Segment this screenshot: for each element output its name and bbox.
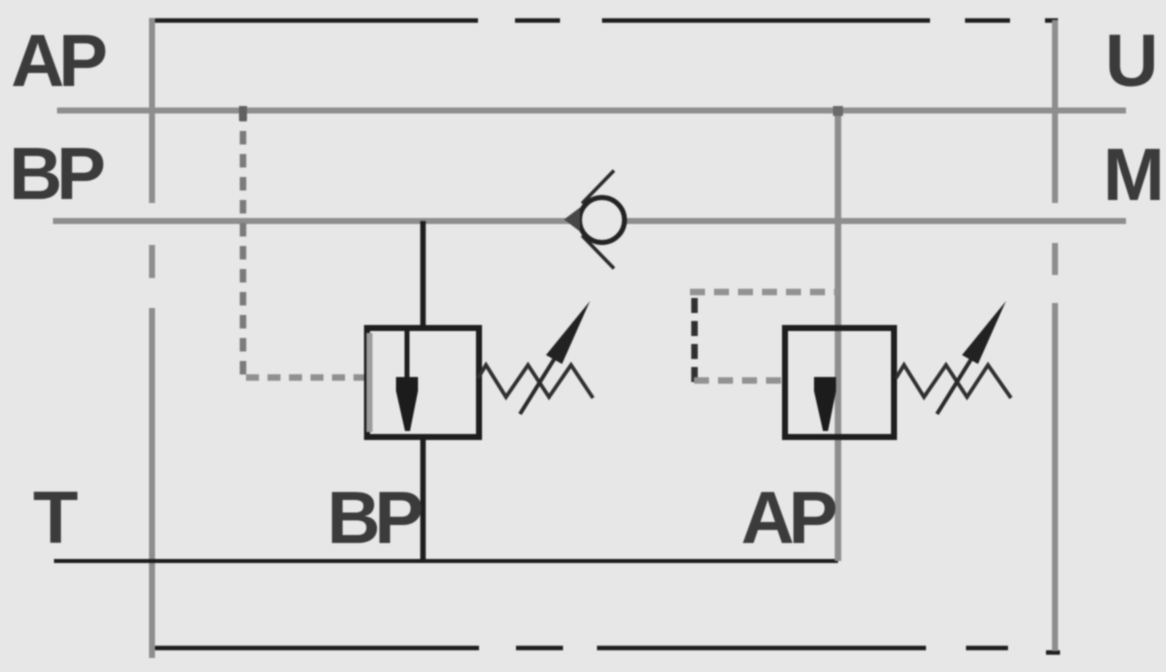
svg-text:T: T: [33, 476, 78, 559]
relief valve RV2 (right): body square: [785, 328, 894, 437]
relief valve RV1 (left): body square: [367, 328, 479, 437]
relief valve RV2: internal flow arrow (down): [814, 377, 836, 431]
enclosure border: bottom (black dashed): [154, 648, 1060, 653]
relief valve RV1: adjustment arrow: [520, 353, 558, 414]
svg-text:BP: BP: [9, 132, 103, 215]
relief valve RV2: adjustment arrow: [937, 353, 975, 414]
svg-text:BP: BP: [327, 476, 421, 559]
check valve V1: seat wedge: [564, 208, 580, 232]
svg-text:U: U: [1105, 19, 1158, 102]
wire: left valve riser upper (black, BP line to valve): [420, 221, 426, 331]
relief valve RV1: internal poppet stem: [405, 330, 410, 380]
enclosure border: left (gray dashed): [149, 18, 155, 658]
pilot line: right valve, vertical (dark): [691, 298, 698, 384]
pilot line: left valve, horizontal into valve: [246, 374, 370, 381]
svg-text:M: M: [1103, 133, 1165, 216]
relief valve RV1: spring: [478, 365, 593, 398]
svg-text:AP: AP: [741, 476, 835, 559]
junction: pilot tap on AP line: [239, 106, 247, 121]
junction: riser tap on AP line: [833, 106, 843, 116]
enclosure border: right (gray dashed): [1052, 20, 1058, 651]
check valve V1: ball: [580, 198, 625, 243]
relief valve RV1: internal flow arrow (down): [396, 377, 418, 431]
pilot line: right valve, bottom horizontal into valve: [694, 377, 782, 384]
check valve V1 on BP line: seat arms: [582, 171, 614, 269]
wire: BP line (gray): [53, 218, 1126, 224]
relief valve RV2: spring: [896, 365, 1011, 398]
svg-text:AP: AP: [11, 19, 105, 102]
wire: right valve riser (gray, AP line to T line): [835, 110, 842, 561]
wire: AP line (P line, gray): [57, 108, 1126, 114]
wire: left valve riser lower (black, valve to T line): [420, 434, 426, 561]
wire: T line (black): [54, 559, 838, 563]
pilot line: right valve, top horizontal from riser: [690, 289, 838, 296]
enclosure border: top (black dashed): [152, 18, 1058, 23]
pilot line: left valve, vertical from AP line: [240, 108, 247, 378]
relief valve RV1: gray pilot edge on left side: [367, 333, 373, 432]
